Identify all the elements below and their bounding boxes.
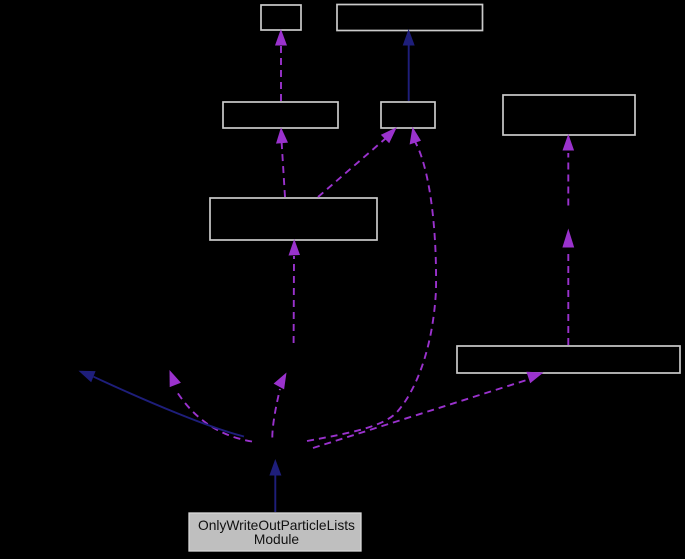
svg-text:Module: Module	[254, 532, 300, 547]
svg-text:OnlyWriteOutParticleLists: OnlyWriteOutParticleLists	[198, 518, 355, 533]
